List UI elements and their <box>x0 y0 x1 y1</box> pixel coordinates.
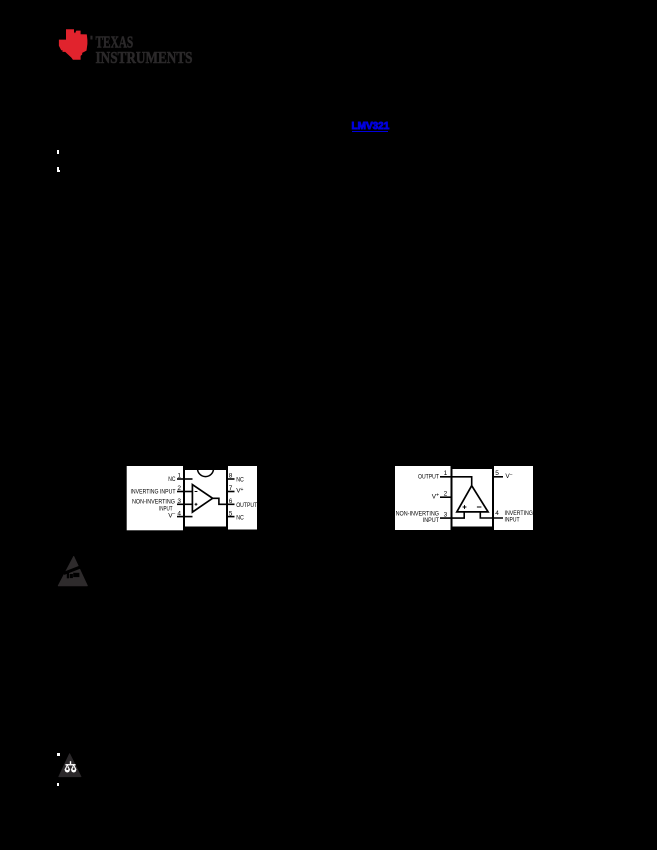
svg-text:INVERTING INPUT: INVERTING INPUT <box>131 489 176 496</box>
svg-text:6: 6 <box>229 498 233 505</box>
slash cutout <box>63 565 83 575</box>
svg-text:1: 1 <box>177 473 181 480</box>
plus input mark <box>463 506 467 508</box>
bullet mark 2 <box>57 167 59 172</box>
svg-text:OUTPUT: OUTPUT <box>236 502 257 509</box>
svg-text:NON-INVERTING: NON-INVERTING <box>132 498 175 505</box>
right pan <box>72 765 76 769</box>
minus input mark <box>195 491 198 493</box>
plus input mark <box>195 503 198 505</box>
right label panel <box>494 466 533 530</box>
pin 3 wire <box>440 512 464 518</box>
svg-text:4: 4 <box>495 510 499 517</box>
svg-text:8: 8 <box>229 473 233 480</box>
op-amp A2 triangle <box>457 486 488 512</box>
IC body U2 <box>452 468 494 528</box>
pin 4 wire <box>177 516 193 518</box>
svg-text:1: 1 <box>444 470 448 477</box>
svg-text:2: 2 <box>444 491 448 498</box>
pin 3 wire <box>177 503 193 505</box>
svg-text:3: 3 <box>177 498 181 505</box>
svg-text:OUTPUT: OUTPUT <box>418 473 439 480</box>
registered mark <box>90 36 92 40</box>
hand cutout 3 <box>73 573 79 577</box>
index notch <box>198 469 214 477</box>
svg-text:5: 5 <box>495 470 499 477</box>
svg-text:INPUT: INPUT <box>505 517 520 524</box>
IC body U1 <box>184 469 227 528</box>
hand cutout 1 <box>67 573 69 579</box>
svg-text:3: 3 <box>444 511 448 518</box>
svg-text:4: 4 <box>177 510 181 517</box>
red Texas map <box>59 29 88 60</box>
minus input mark <box>477 506 482 508</box>
scales-in-triangle icon <box>55 750 87 782</box>
pin 5 stub <box>227 516 235 518</box>
pin 7 stub <box>227 491 235 493</box>
op-amp A1 triangle <box>192 485 212 512</box>
scales post <box>70 761 71 764</box>
left pan <box>65 765 69 769</box>
svg-text:INSTRUMENTS: INSTRUMENTS <box>96 48 193 67</box>
TI logo (red Texas map + wordmark) <box>0 0 220 80</box>
svg-text:NC: NC <box>168 476 175 483</box>
blue hyperlink LMV321 <box>352 121 390 132</box>
left label panel <box>395 466 451 530</box>
pin 8 stub <box>227 478 235 480</box>
pin 5 wire <box>493 476 504 478</box>
pin 2 wire <box>440 496 452 498</box>
pin 1 wire <box>177 478 193 480</box>
figure: 5-pin SOT-23 package pinout (DBV package) <box>394 464 535 533</box>
right label panel <box>228 466 257 530</box>
scales crossbar <box>65 764 75 765</box>
figure: 8-pin package pinout (D package) <box>125 464 260 533</box>
svg-text:2: 2 <box>177 485 181 492</box>
pin 4 wire <box>480 512 503 518</box>
small white mark below scales <box>57 783 58 787</box>
svg-text:INPUT: INPUT <box>423 517 439 524</box>
white square bullet near scales icon <box>57 753 60 756</box>
svg-text:5: 5 <box>229 510 233 517</box>
output wire pin 6 <box>213 498 235 504</box>
left label panel <box>127 466 183 530</box>
svg-text:NC: NC <box>236 515 244 522</box>
pin 2 wire <box>177 491 193 493</box>
bullet mark 1 <box>57 150 59 154</box>
hand cutout 2 <box>70 574 73 578</box>
svg-text:NC: NC <box>236 477 244 484</box>
pin 1 wire to op-amp apex <box>440 477 472 487</box>
ESD caution triangle icon <box>55 553 91 589</box>
svg-text:7: 7 <box>229 485 233 492</box>
